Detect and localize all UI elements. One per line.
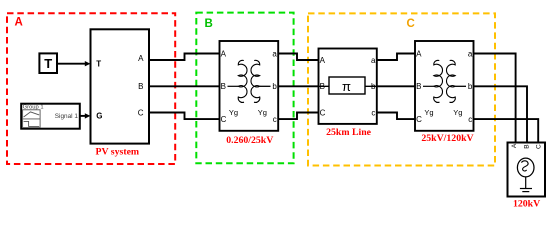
svg-text:b: b [272, 82, 277, 91]
pi line block [319, 49, 377, 124]
svg-text:A: A [320, 56, 326, 65]
svg-text:G: G [96, 112, 102, 121]
svg-text:PV system: PV system [95, 147, 139, 158]
winding 2 (right coil) [446, 60, 455, 102]
winding 2 stub [260, 85, 271, 87]
wire phase B: PV to T1 [149, 85, 220, 87]
svg-text:a: a [371, 56, 376, 65]
winding 1 (left coil) [434, 60, 443, 102]
svg-text:B: B [138, 82, 143, 91]
svg-text:C: C [320, 108, 326, 117]
Group1 signal builder block [21, 104, 80, 129]
svg-text:B: B [416, 82, 421, 91]
wire phase A: PV to T1 [149, 54, 220, 61]
wire phase A: line to T2 [377, 54, 415, 61]
wire T to PV with arrowhead [57, 61, 90, 66]
winding 2 (right coil) [251, 60, 260, 102]
svg-text:Signal 1: Signal 1 [55, 113, 79, 120]
svg-text:A: A [511, 143, 518, 148]
wire phase A: T1 to line [278, 54, 318, 61]
wire phase B: T2 to source [474, 86, 528, 142]
PV system block [91, 29, 150, 143]
svg-text:120kV: 120kV [513, 199, 540, 210]
pi section box [329, 77, 365, 94]
zone C dashed box [308, 13, 495, 165]
ground symbol [525, 177, 527, 188]
T block (temperature input) [39, 53, 57, 73]
svg-text:a: a [272, 49, 277, 58]
winding 2 stub [455, 85, 466, 87]
svg-text:Yg: Yg [453, 108, 462, 117]
wire Group1 to PV with arrowhead [80, 113, 91, 118]
svg-text:C: C [416, 115, 422, 124]
svg-text:B: B [524, 144, 531, 148]
svg-text:0.260/25kV: 0.260/25kV [226, 135, 273, 146]
svg-text:π: π [342, 79, 351, 94]
wire phase B: line to T2 [377, 85, 415, 87]
signal builder icon [23, 110, 40, 128]
svg-text:c: c [273, 115, 277, 124]
svg-text:25km Line: 25km Line [326, 127, 372, 138]
svg-text:Yg: Yg [424, 108, 433, 117]
winding 1 stub [228, 85, 239, 87]
source block (120kV grid) [508, 143, 546, 197]
svg-text:T: T [96, 60, 101, 69]
wire phase A: T2 to source [474, 54, 516, 143]
svg-text:B: B [205, 18, 213, 30]
svg-text:T: T [44, 56, 52, 71]
svg-text:c: c [468, 115, 472, 124]
wire phase C: PV to T1 [149, 113, 220, 120]
svg-text:a: a [468, 49, 473, 58]
sine squiggle [521, 161, 528, 171]
transformer T2 block [415, 41, 474, 131]
wire through pi section [319, 85, 377, 87]
zone B dashed box [196, 13, 293, 164]
source circle [517, 158, 534, 177]
svg-text:b: b [468, 82, 473, 91]
wire phase C: line to T2 [377, 113, 415, 120]
winding 1 (left coil) [238, 60, 247, 102]
svg-text:25kV/120kV: 25kV/120kV [421, 133, 473, 144]
svg-text:A: A [221, 49, 227, 58]
svg-text:A: A [416, 49, 422, 58]
svg-text:B: B [221, 82, 226, 91]
svg-text:A: A [15, 16, 23, 28]
wire phase B: T1 to line [278, 85, 318, 87]
svg-text:C: C [407, 18, 415, 30]
svg-text:C: C [536, 144, 543, 149]
svg-text:C: C [221, 115, 227, 124]
svg-text:c: c [371, 108, 375, 117]
wire phase C: T1 to line [278, 113, 318, 120]
svg-text:A: A [138, 54, 144, 63]
transformer T1 block [220, 41, 279, 131]
winding 1 stub [423, 85, 434, 87]
zone A dashed box [7, 13, 175, 164]
svg-text:Yg: Yg [229, 108, 238, 117]
wire phase C: T2 to source [474, 119, 539, 142]
svg-text:C: C [138, 108, 144, 117]
svg-text:Yg: Yg [258, 108, 267, 117]
